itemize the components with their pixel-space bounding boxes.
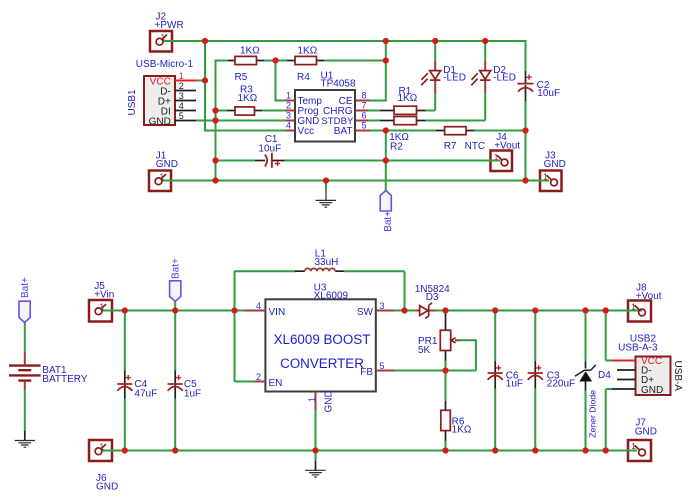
svg-text:Zener Diode: Zener Diode xyxy=(587,390,597,438)
svg-text:1: 1 xyxy=(307,397,317,402)
svg-text:+Vout: +Vout xyxy=(494,140,520,151)
svg-text:1KΩ: 1KΩ xyxy=(238,93,258,104)
svg-text:5: 5 xyxy=(380,361,385,371)
svg-text:5: 5 xyxy=(179,111,184,121)
svg-text:+Vout: +Vout xyxy=(636,291,662,302)
svg-text:10uF: 10uF xyxy=(258,143,281,154)
svg-text:8: 8 xyxy=(362,90,367,100)
svg-text:6: 6 xyxy=(362,110,367,120)
svg-text:USB-A: USB-A xyxy=(672,361,683,392)
svg-text:VIN: VIN xyxy=(269,307,286,318)
svg-text:1: 1 xyxy=(179,71,184,81)
svg-text:5K: 5K xyxy=(418,345,431,356)
svg-text:+PWR: +PWR xyxy=(155,20,184,31)
svg-text:USB-Micro-1: USB-Micro-1 xyxy=(136,59,194,70)
svg-text:GND: GND xyxy=(641,385,663,396)
svg-text:BAT: BAT xyxy=(334,126,353,137)
svg-text:-LED: -LED xyxy=(493,73,516,84)
svg-text:GND: GND xyxy=(635,427,657,438)
svg-text:TP4058: TP4058 xyxy=(321,78,356,89)
svg-text:1: 1 xyxy=(631,303,636,312)
svg-text:R4: R4 xyxy=(297,72,310,83)
svg-text:BATTERY: BATTERY xyxy=(42,374,88,385)
svg-text:4: 4 xyxy=(256,301,261,311)
svg-text:1KΩ: 1KΩ xyxy=(298,45,318,56)
svg-text:1uF: 1uF xyxy=(506,379,523,390)
svg-text:GND: GND xyxy=(156,159,178,170)
svg-text:1: 1 xyxy=(494,153,499,162)
svg-text:-LED: -LED xyxy=(443,73,466,84)
svg-text:4: 4 xyxy=(286,120,291,130)
svg-text:1: 1 xyxy=(100,302,105,311)
svg-text:33uH: 33uH xyxy=(315,257,339,268)
svg-text:2: 2 xyxy=(179,81,184,91)
svg-text:1: 1 xyxy=(100,442,105,451)
svg-text:EN: EN xyxy=(269,378,283,389)
svg-text:Vcc: Vcc xyxy=(298,126,315,137)
svg-text:GND: GND xyxy=(324,390,335,412)
svg-text:3: 3 xyxy=(286,110,291,120)
svg-text:R7: R7 xyxy=(444,141,457,152)
svg-text:USB-A-3: USB-A-3 xyxy=(618,343,658,354)
svg-text:GND: GND xyxy=(149,116,171,127)
svg-text:1KΩ: 1KΩ xyxy=(398,93,418,104)
svg-text:1: 1 xyxy=(543,173,548,182)
svg-text:1KΩ: 1KΩ xyxy=(452,425,472,436)
svg-text:Bat+: Bat+ xyxy=(383,211,394,232)
svg-text:4: 4 xyxy=(179,101,184,111)
svg-text:3: 3 xyxy=(380,301,385,311)
svg-text:2: 2 xyxy=(256,372,261,382)
svg-text:XL6009: XL6009 xyxy=(314,290,349,301)
svg-text:D4: D4 xyxy=(598,370,611,381)
svg-text:1: 1 xyxy=(286,90,291,100)
svg-text:Bat+: Bat+ xyxy=(171,258,182,279)
svg-text:CONVERTER: CONVERTER xyxy=(280,356,364,371)
svg-text:220uF: 220uF xyxy=(547,379,575,390)
svg-text:USB1: USB1 xyxy=(127,89,138,116)
svg-text:FB: FB xyxy=(360,367,373,378)
svg-text:10uF: 10uF xyxy=(537,88,560,99)
svg-text:+Vin: +Vin xyxy=(94,290,114,301)
svg-text:5: 5 xyxy=(362,120,367,130)
svg-text:R5: R5 xyxy=(235,72,248,83)
svg-text:1: 1 xyxy=(161,33,166,42)
svg-text:1KΩ: 1KΩ xyxy=(240,45,260,56)
svg-text:NTC: NTC xyxy=(465,141,486,152)
svg-text:SW: SW xyxy=(357,307,374,318)
svg-text:D3: D3 xyxy=(426,292,439,303)
svg-text:1uF: 1uF xyxy=(184,388,201,399)
svg-text:1: 1 xyxy=(631,442,636,451)
svg-text:GND: GND xyxy=(96,482,118,493)
svg-text:47uF: 47uF xyxy=(134,388,157,399)
svg-text:7: 7 xyxy=(362,100,367,110)
svg-text:2: 2 xyxy=(286,100,291,110)
svg-text:GND: GND xyxy=(544,159,566,170)
svg-text:Bat+: Bat+ xyxy=(20,277,31,298)
svg-text:3: 3 xyxy=(179,91,184,101)
svg-text:R2: R2 xyxy=(390,141,403,152)
svg-text:XL6009 BOOST: XL6009 BOOST xyxy=(274,332,371,347)
svg-text:1: 1 xyxy=(160,173,165,182)
